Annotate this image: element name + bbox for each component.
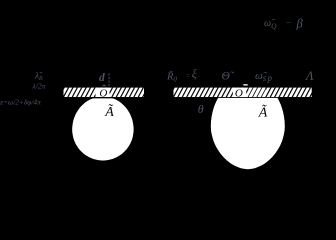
svg-text:Λ: Λ [305,69,314,83]
svg-text:O: O [235,87,243,99]
svg-text:Ã: Ã [104,103,114,120]
svg-text:Ã: Ã [258,104,268,121]
svg-text:λ/2π: λ/2π [32,82,46,91]
svg-text:θ: θ [198,102,204,116]
svg-text:d: d [99,72,105,84]
svg-text:β: β [296,17,304,31]
svg-text:ξ: ξ [192,67,198,81]
svg-text:=: = [186,72,191,80]
svg-text:z=ω/2+δφ/4π: z=ω/2+δφ/4π [0,97,41,106]
svg-text:O: O [99,87,107,99]
